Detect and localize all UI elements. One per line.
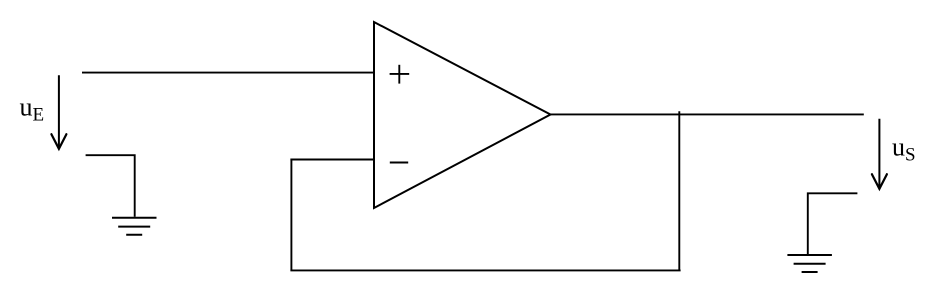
- svg-text:E: E: [33, 104, 45, 125]
- wire (inverting input): [290, 159, 374, 161]
- voltage arrow uE: [51, 75, 66, 149]
- wire (feedback right vertical): [678, 111, 680, 270]
- svg-text:u: u: [892, 133, 905, 162]
- svg-text:S: S: [905, 145, 916, 166]
- op-amp plus input marker: [390, 65, 410, 84]
- wire (non-inverting input): [82, 72, 374, 74]
- op-amp minus input marker: [390, 162, 408, 164]
- label uS: [892, 133, 916, 166]
- label uE: [20, 92, 45, 125]
- wire (output): [551, 113, 864, 115]
- ground (left): [112, 218, 157, 235]
- ground lead wire (right): [808, 193, 858, 254]
- op-amp U1: [374, 22, 551, 208]
- ground (right): [787, 255, 832, 272]
- voltage arrow uS: [872, 119, 887, 189]
- ground lead wire (left): [86, 155, 135, 217]
- wire (feedback left vertical): [290, 159, 292, 271]
- svg-text:u: u: [20, 92, 33, 121]
- wire (feedback bottom): [290, 269, 680, 271]
